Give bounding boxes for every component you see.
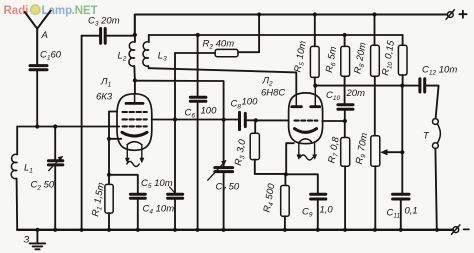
wire L2 node to C7 column (135, 81, 224, 167)
svg-text:100: 100 (201, 106, 218, 117)
svg-text:R2 40m: R2 40m (203, 39, 235, 51)
wire Л2 grid right (322, 120, 344, 122)
svg-text:C160: C160 (40, 50, 62, 62)
svg-text:Radi: Radi (4, 5, 29, 17)
svg-text:100: 100 (242, 97, 259, 108)
node cathode Л1 (107, 137, 111, 141)
node L2 bottom (133, 78, 137, 82)
svg-text:C7 50: C7 50 (216, 182, 240, 194)
wire L3 bottom to Л2 anode (149, 68, 296, 93)
wire top B+ rail (135, 15, 447, 35)
wire bottom ground rail (17, 229, 453, 231)
node R1 top branch (107, 173, 111, 177)
wire cathode Л1 (109, 138, 121, 140)
wire C8 to grid Л2 (256, 119, 289, 121)
resistor R2 (175, 52, 215, 54)
node tank-antenna (35, 124, 39, 128)
capacitor C10 (338, 105, 353, 110)
resistor R10 (402, 35, 404, 45)
filament Л2 (300, 139, 312, 142)
resistor R4 (284, 174, 286, 185)
tube U1 Л1 envelope (117, 94, 152, 151)
node cathode Л2 junction (284, 172, 288, 176)
svg-text:C3 20m: C3 20m (88, 16, 120, 28)
antenna A (25, 11, 51, 65)
wire tank line (17, 126, 119, 128)
capacitor C1 (30, 66, 47, 70)
anode left Л2 (292, 105, 302, 108)
grid rows Л1 (123, 112, 147, 126)
inductor L3 (148, 35, 150, 42)
heater legs Л2 (298, 142, 300, 155)
wire grid stub Л1 (109, 112, 117, 185)
wire antenna to tank (36, 71, 38, 126)
capacitor C12 (420, 79, 425, 92)
svg-text:З: З (24, 235, 30, 246)
capacitor C3 (82, 35, 99, 37)
svg-text:Lamp: Lamp (42, 5, 73, 17)
watermark logo RadioLamp.NET (4, 5, 98, 17)
heater wave Л2 (300, 155, 313, 160)
terminal minus (452, 225, 460, 234)
anode right Л2 (311, 105, 320, 108)
svg-text:C12 10m: C12 10m (422, 65, 457, 77)
node screen/R2/C5 (173, 117, 177, 121)
heater legs Л1 (126, 145, 128, 159)
grid row Л2 (295, 120, 318, 122)
resistor R7 (341, 138, 350, 167)
wire Л1 screen row to right (152, 119, 238, 121)
resistor R1 (105, 184, 113, 213)
capacitor C8 (240, 112, 246, 129)
tube U2 Л2 envelope (289, 93, 323, 144)
wire Л2 cathode tap (286, 143, 294, 174)
filament Л1 (127, 142, 142, 145)
node anode right / phones line (313, 84, 317, 88)
wiper R9 (386, 151, 402, 153)
node C3/L2/B+ (133, 33, 137, 37)
resistor R6 (343, 33, 347, 37)
capacitor C4 (130, 194, 145, 198)
wire screen line y35 (149, 34, 403, 36)
resistor R8 (372, 12, 376, 16)
wire phones line y85.5 (315, 85, 418, 87)
terminal plus (446, 10, 454, 19)
ground symbol (35, 228, 39, 232)
node rail-C2 (53, 228, 57, 232)
phones T (433, 119, 441, 149)
node R10/C12/wiper (400, 84, 404, 88)
wire C3 left leg to ground (81, 36, 83, 230)
node R3 top (254, 118, 258, 122)
svg-text:20m: 20m (346, 88, 366, 99)
svg-text:6К3: 6К3 (96, 92, 113, 103)
cathode Л2 (295, 129, 317, 133)
wire cathode branch to C4 (109, 175, 138, 193)
cathode Л1 (122, 132, 147, 136)
svg-text:C5 10m: C5 10m (141, 178, 173, 190)
capacitor C2 variable (54, 127, 56, 160)
capacitor C5 (174, 53, 176, 193)
svg-text:C4 10m: C4 10m (143, 204, 175, 216)
node screen/C7 column (222, 118, 226, 122)
wire L2 to tube anode top (134, 81, 136, 94)
inductor L2 (134, 35, 136, 42)
svg-text:0,1: 0,1 (405, 206, 418, 217)
node grid/C10 (343, 119, 347, 123)
inductor L1 (16, 127, 18, 155)
anode Л1 (126, 102, 143, 105)
resistor R5 (313, 12, 317, 16)
capacitor C11 (393, 194, 409, 199)
node tank-C2 (53, 124, 57, 128)
svg-text:A: A (41, 30, 48, 41)
wire wiper column (401, 86, 403, 193)
resistor R3 (254, 120, 256, 133)
capacitor C7 trimmer (215, 168, 233, 172)
capacitor C6 (197, 35, 199, 96)
svg-text:6Н8С: 6Н8С (261, 88, 285, 99)
svg-text:C2 50: C2 50 (31, 180, 55, 192)
heater wave Л1 (127, 162, 139, 167)
pointer C5 (170, 187, 175, 193)
svg-text:1,0: 1,0 (320, 205, 334, 216)
capacitor C9 (286, 174, 318, 193)
resistor R9 potentiometer (371, 136, 380, 167)
